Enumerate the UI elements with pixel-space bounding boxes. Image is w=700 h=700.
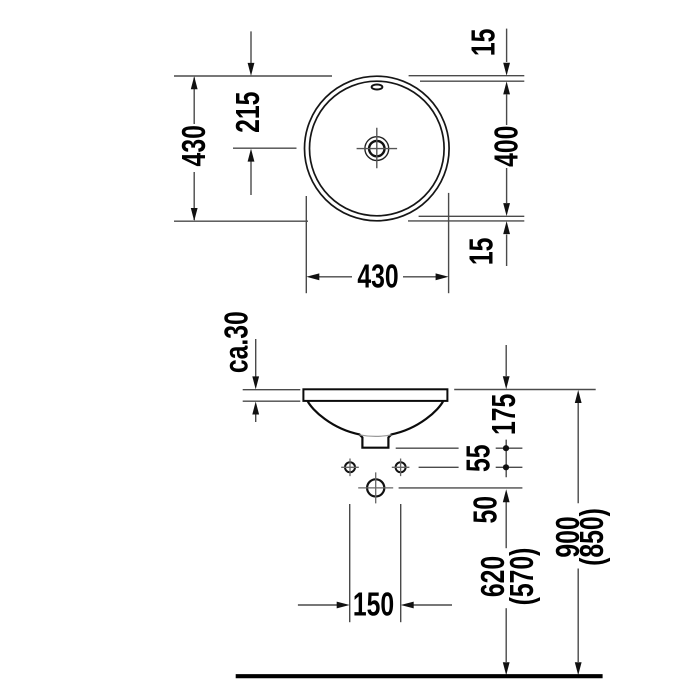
faucet hole right crosshair	[392, 459, 410, 477]
svg-text:(570): (570)	[505, 548, 541, 606]
drain inner circle	[369, 141, 384, 156]
dimension 15 top line	[506, 29, 508, 62]
faint arc across stub	[359, 435, 391, 437]
dimension 620 line lower part	[505, 608, 507, 662]
extension line bottom-left (outer bottom tangent)	[174, 220, 308, 222]
extension line for 430 bottom right	[448, 193, 450, 293]
svg-text:15: 15	[464, 238, 500, 266]
basin outer rim circle (430 dia)	[305, 76, 450, 221]
counter line right	[454, 389, 596, 391]
counter line left upper	[243, 389, 301, 391]
faucet hole left crosshair	[341, 459, 359, 477]
dimension 430 left line	[193, 78, 195, 221]
drain hole front crosshair	[358, 472, 393, 503]
dimension ca.30 line	[255, 339, 257, 422]
basin rim (front)	[303, 389, 447, 401]
reference line faucet level	[419, 466, 523, 468]
drain outer circle	[365, 137, 389, 161]
dimension 215 line	[250, 31, 252, 195]
extension line bottom-right outer	[408, 220, 524, 222]
dimension 400 line	[506, 95, 508, 204]
dimension 150 left arrow	[298, 604, 337, 606]
extension line top-right inner	[420, 80, 524, 82]
floor line	[236, 674, 603, 678]
svg-text:55: 55	[461, 445, 497, 473]
extension line 150 right	[400, 504, 402, 622]
faucet hole right	[396, 462, 406, 472]
svg-text:215: 215	[231, 92, 267, 133]
svg-text:400: 400	[489, 126, 525, 167]
dimension 430 bottom line	[318, 276, 437, 278]
extension line top-left (outer top tangent)	[174, 75, 332, 77]
dimension 150 right arrow	[414, 604, 453, 606]
svg-text:175: 175	[487, 394, 523, 435]
svg-text:15: 15	[466, 29, 502, 57]
basin bowl with drain stub	[308, 401, 444, 448]
drain hole front	[367, 479, 384, 496]
extension line for 430 bottom left	[305, 196, 307, 293]
extension line centre height	[233, 147, 297, 149]
svg-text:430: 430	[357, 259, 398, 295]
extension line 150 left	[349, 504, 351, 622]
counter line left lower	[243, 400, 301, 402]
chain dot upper	[503, 445, 509, 451]
svg-text:430: 430	[177, 125, 213, 166]
dimension 900 line	[577, 403, 579, 662]
svg-text:50: 50	[468, 496, 504, 524]
dimension 620 line upper part with up arrow	[505, 502, 507, 548]
drain crosshair	[357, 128, 398, 169]
extension line top-right outer	[409, 75, 525, 77]
faucet hole left	[345, 462, 355, 472]
dimension 15 bottom line	[506, 235, 508, 267]
reference line stub bottom level	[396, 447, 523, 449]
chain dot lower	[503, 464, 509, 470]
svg-text:ca.30: ca.30	[219, 311, 255, 373]
overflow oval	[372, 85, 383, 90]
reference line drain level	[399, 487, 523, 489]
extension line bottom-right inner	[419, 215, 525, 217]
svg-text:150: 150	[353, 587, 394, 623]
svg-text:(850): (850)	[575, 508, 611, 566]
basin inner rim circle (400 dia)	[310, 81, 445, 216]
dimension 175/55/50 chain line	[505, 345, 507, 477]
